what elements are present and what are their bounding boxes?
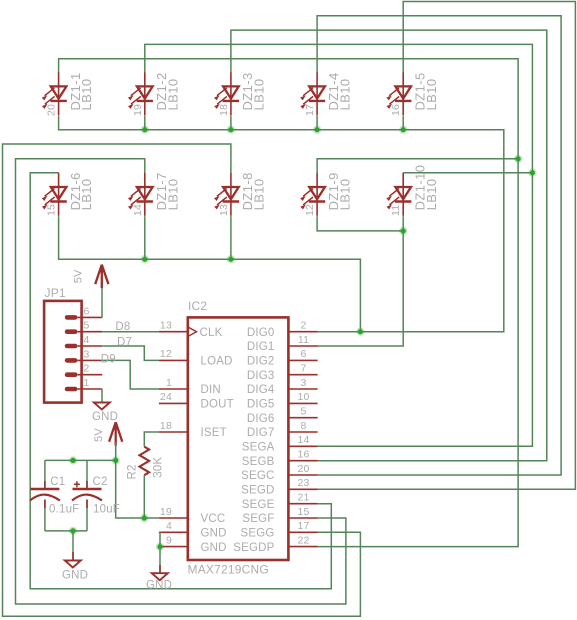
label IC2 (188, 299, 207, 313)
label JP1 pin number 3 (83, 348, 89, 360)
junction row2 bus / DZ1-7 cathode (141, 255, 149, 263)
label IC2 pin name GND (201, 542, 227, 554)
label DZ1-9 name (326, 172, 353, 210)
label DZ1-3 pin number 18 (218, 104, 230, 116)
wire net DIG0 row2 cathode bus (DZ1-6..8) (59, 216, 361, 332)
label DZ1-8 pin number 13 (218, 204, 230, 216)
svg-text:20: 20 (297, 463, 309, 475)
svg-text:GND: GND (201, 528, 227, 540)
label IC2 pin name CLK (200, 327, 223, 339)
LED DZ1-10 (387, 173, 412, 216)
svg-text:VCC: VCC (201, 513, 226, 525)
IC2 right pin 22 (SEGDP) stub (288, 546, 317, 548)
wire C1 top lead (44, 460, 46, 488)
svg-text:DIG0: DIG0 (247, 327, 275, 339)
JP1 pad pin 5 (65, 329, 102, 334)
wire ISET to R2 top (144, 432, 159, 447)
IC2 left pin 1 (DIN) stub (159, 388, 188, 390)
svg-text:LOAD: LOAD (201, 356, 233, 368)
wire DZ1-5 cathode drop (402, 116, 404, 130)
label IC2 pin number 24 (160, 391, 172, 403)
label IC2 pin number 15 (297, 506, 309, 518)
svg-text:5V: 5V (73, 269, 85, 283)
svg-text:5V: 5V (93, 428, 105, 442)
IC2 right pin 2 (DIG0) stub (288, 331, 317, 333)
IC2 clock input symbol (188, 327, 197, 337)
svg-text:C1: C1 (50, 476, 65, 488)
svg-text:3: 3 (300, 377, 306, 389)
LED DZ1-1 (42, 72, 67, 115)
label DZ1-9 pin number 12 (304, 204, 316, 216)
svg-text:SEGB: SEGB (242, 456, 275, 468)
svg-text:SEGD: SEGD (241, 485, 274, 497)
label IC2 pin name VCC (201, 513, 226, 525)
svg-text:4: 4 (83, 334, 89, 346)
svg-text:30K: 30K (153, 457, 165, 478)
label IC2 pin name ISET (201, 427, 227, 439)
wire C1 bottom lead (44, 500, 46, 531)
svg-text:DIN: DIN (201, 384, 221, 396)
label IC2 pin number 6 (300, 348, 306, 360)
svg-text:6: 6 (300, 348, 306, 360)
label IC2 pin name DIG3 (247, 370, 275, 382)
svg-text:SEGF: SEGF (242, 513, 274, 525)
svg-text:LB10: LB10 (424, 178, 439, 210)
IC2 left pin 24 (DOUT) stub (159, 402, 188, 404)
wire DZ1-9 anode branch to SEGDP net (317, 159, 518, 173)
svg-text:SEGDP: SEGDP (233, 542, 274, 554)
svg-text:11: 11 (298, 334, 309, 346)
svg-text:20: 20 (46, 104, 58, 116)
label JP1 pin number 6 (83, 305, 89, 317)
label C2 (93, 476, 108, 488)
label DZ1-10 pin number 11 (390, 205, 402, 216)
junction 5V / VCC / capacitor bus (112, 456, 120, 464)
label IC2 pin number 11 (298, 334, 309, 346)
svg-text:18: 18 (160, 420, 172, 432)
label C1 (50, 476, 65, 488)
label JP1 pin number 2 (83, 363, 89, 375)
label IC2 pin name GND (201, 528, 227, 540)
svg-text:15: 15 (46, 204, 58, 216)
label IC2 pin name DIG5 (247, 399, 275, 411)
svg-text:4: 4 (166, 520, 172, 532)
svg-text:SEGC: SEGC (241, 470, 274, 482)
svg-text:DIG6: DIG6 (247, 413, 275, 425)
wire net DIG1 (DZ1-9 and DZ1-10 cathodes to IC pin 11) (317, 216, 403, 346)
wire DZ1-7 cathode drop (144, 216, 146, 259)
junction row1 bus / DZ1-5 cathode (399, 126, 407, 134)
svg-text:12: 12 (160, 348, 172, 360)
label IC2 pin number 2 (300, 320, 306, 332)
svg-text:SEGE: SEGE (242, 499, 275, 511)
label IC2 pin name DIG0 (247, 327, 275, 339)
IC U IC2 box (188, 317, 289, 560)
label IC2 pin number 19 (160, 506, 172, 518)
wire net SEGC (DZ1-4 anode to IC pin) (317, 16, 561, 475)
power 5V symbol (above JP1) (95, 265, 108, 289)
svg-text:D9: D9 (101, 354, 116, 366)
wire net SEGD (DZ1-5 anode to IC pin) (318, 2, 576, 490)
label IC2 pin number 7 (300, 363, 306, 375)
svg-text:0.1uF: 0.1uF (49, 504, 79, 516)
label JP1 pin number 1 (83, 377, 89, 389)
label JP1 (45, 286, 66, 300)
IC2 right pin 6 (DIG2) stub (288, 359, 317, 361)
svg-text:16: 16 (390, 104, 402, 116)
svg-text:DIG4: DIG4 (247, 384, 275, 396)
IC2 right pin 5 (DIG6) stub (288, 417, 317, 419)
LED DZ1-7 (128, 173, 153, 216)
IC2 left pin 18 (ISET) stub (159, 431, 188, 433)
label 30K (153, 457, 165, 478)
svg-text:6: 6 (83, 305, 89, 317)
label IC2 pin number 9 (166, 534, 172, 546)
junction R2 bottom / VCC wire (140, 514, 148, 522)
svg-text:14: 14 (297, 434, 309, 446)
label DZ1-5 pin number 16 (390, 104, 402, 116)
svg-text:DIG3: DIG3 (247, 370, 275, 382)
label IC2 pin name SEGA (242, 442, 275, 454)
svg-text:LB10: LB10 (252, 178, 267, 210)
LED DZ1-2 (128, 72, 153, 115)
IC2 left pin 12 (LOAD) stub (159, 359, 188, 361)
junction row2 bus drop / DIG0 wire (356, 328, 364, 336)
IC2 right pin 10 (DIG5) stub (288, 402, 317, 404)
svg-text:DIG1: DIG1 (247, 341, 275, 353)
IC2 right pin 7 (DIG3) stub (288, 374, 317, 376)
svg-text:17: 17 (304, 104, 316, 116)
junction capacitor bottom bus / GND (69, 527, 77, 535)
wire net SEGE (DZ1-6 anode wrap-around to IC pin 21) (30, 173, 331, 589)
label DZ1-7 name (154, 172, 180, 210)
wire net D9 (JP1 pin3 to DIN) (102, 360, 159, 389)
svg-text:DOUT: DOUT (201, 399, 234, 411)
LED DZ1-6 (42, 173, 67, 216)
svg-text:ISET: ISET (201, 427, 227, 439)
wire DZ1-3 cathode drop (230, 116, 232, 130)
JP1 pad pin 3 (65, 358, 102, 363)
svg-text:GND: GND (92, 411, 118, 423)
label IC2 pin name SEGDP (233, 542, 274, 554)
wire to GND (below caps) (72, 531, 74, 560)
capacitor C1 (30, 489, 60, 501)
svg-text:19: 19 (160, 506, 172, 518)
label IC2 pin name SEGG (240, 528, 274, 540)
label 0.1uF (49, 504, 79, 516)
wire C2 bottom lead (86, 500, 88, 531)
label IC2 pin name DIG6 (247, 413, 275, 425)
IC2 left pin 19 (VCC) stub (159, 517, 188, 519)
svg-text:17: 17 (297, 520, 309, 532)
svg-text:R2: R2 (127, 464, 139, 479)
label IC2 pin name SEGE (242, 499, 275, 511)
JP1 pad pin 2 (65, 372, 102, 377)
svg-text:LB10: LB10 (79, 79, 94, 111)
LED DZ1-5 (387, 72, 412, 115)
IC2 right pin 11 (DIG1) stub (288, 345, 317, 347)
svg-text:13: 13 (218, 204, 230, 216)
svg-text:15: 15 (297, 506, 309, 518)
IC2 right pin 16 (SEGB) stub (288, 460, 317, 462)
label IC2 pin number 1 (166, 377, 172, 389)
label DZ1-6 pin number 15 (46, 204, 58, 216)
label IC2 pin number 22 (297, 534, 309, 546)
svg-text:DIG2: DIG2 (247, 356, 275, 368)
svg-text:2: 2 (83, 363, 89, 375)
label DZ1-4 pin number 17 (304, 104, 316, 116)
label MAX7219CNG (188, 563, 269, 577)
svg-text:7: 7 (300, 363, 306, 375)
label 10uF (93, 504, 120, 516)
wire R2 bottom to VCC net (143, 475, 145, 518)
svg-text:D8: D8 (115, 321, 130, 333)
ground GND symbol (below JP1) (94, 403, 110, 410)
svg-text:10uF: 10uF (93, 504, 120, 516)
label IC2 pin number 14 (297, 434, 309, 446)
LED DZ1-3 (214, 72, 239, 115)
label D8 (115, 321, 130, 333)
svg-text:14: 14 (132, 204, 144, 216)
svg-text:13: 13 (160, 320, 172, 332)
svg-text:SEGG: SEGG (240, 528, 274, 540)
LED DZ1-9 (300, 173, 325, 216)
junction capacitor bus / GND branch (top) (69, 456, 77, 464)
svg-text:23: 23 (297, 477, 309, 489)
label GND (below JP1) (92, 411, 118, 423)
svg-text:5: 5 (83, 320, 89, 332)
IC2 left pin 13 (CLK) stub (159, 331, 188, 333)
junction row1 bus / DZ1-2 cathode (141, 126, 149, 134)
label D9 (101, 354, 116, 366)
wire net SEGB (DZ1-3 anode to IC pin) (231, 30, 547, 461)
LED DZ1-8 (214, 173, 239, 216)
label DZ1-1 pin number 20 (46, 104, 58, 116)
label IC2 pin number 8 (300, 420, 306, 432)
IC2 right pin 23 (SEGD) stub (288, 488, 317, 490)
resistor R2 zigzag (140, 447, 150, 476)
label IC2 pin name SEGC (241, 470, 274, 482)
label DZ1-1 name (68, 72, 94, 110)
svg-text:LB10: LB10 (338, 178, 353, 210)
junction row1 bus / DZ1-3 cathode (227, 126, 235, 134)
label IC2 pin number 20 (297, 463, 309, 475)
capacitor C2 (polarized) (72, 481, 102, 500)
label GND (below IC2) (146, 580, 172, 592)
svg-text:1: 1 (166, 377, 172, 389)
svg-text:10: 10 (297, 391, 309, 403)
svg-text:DIG7: DIG7 (247, 427, 275, 439)
label DZ1-4 name (326, 72, 353, 110)
JP1 pad pin 1 (65, 387, 102, 392)
label DZ1-2 name (154, 72, 180, 110)
wire net D8 (JP1 pin5 to CLK) (102, 331, 159, 333)
junction DZ1-10 cathode / DIG1 net (399, 227, 407, 235)
svg-text:11: 11 (390, 205, 402, 216)
label IC2 pin name DOUT (201, 399, 234, 411)
label DZ1-8 name (240, 172, 266, 210)
label IC2 pin name LOAD (201, 356, 233, 368)
label IC2 pin number 5 (300, 406, 306, 418)
svg-text:22: 22 (297, 534, 309, 546)
svg-text:19: 19 (132, 104, 144, 116)
label IC2 pin name DIG1 (247, 341, 275, 353)
svg-text:LB10: LB10 (165, 79, 180, 111)
junction DZ1-9 anode / SEGDP net (514, 155, 522, 163)
label IC2 pin number 12 (160, 348, 172, 360)
wire DZ1-4 cathode drop (316, 116, 318, 130)
label DZ1-2 pin number 19 (132, 104, 144, 116)
IC2 left pin 4 (GND) stub (159, 531, 188, 533)
svg-text:21: 21 (297, 492, 309, 504)
label IC2 pin name DIG4 (247, 384, 275, 396)
wire net D7 (JP1 pin4 to LOAD) (102, 346, 159, 360)
svg-text:LB10: LB10 (165, 178, 180, 210)
ground GND symbol (below IC2) (152, 573, 168, 580)
wire JP1 pin6 to 5V (101, 285, 103, 317)
IC2 right pin 8 (DIG7) stub (288, 431, 317, 433)
svg-text:JP1: JP1 (45, 286, 66, 300)
svg-text:16: 16 (297, 449, 309, 461)
wire net SEGG (DZ1-8 anode wrap-around to IC pin 17) (3, 144, 361, 616)
label JP1 pin number 4 (83, 334, 89, 346)
label IC2 pin number 3 (300, 377, 306, 389)
svg-text:18: 18 (218, 104, 230, 116)
label D7 (117, 337, 132, 349)
junction row2 bus / DZ1-8 cathode (227, 255, 235, 263)
svg-text:3: 3 (83, 348, 89, 360)
svg-text:LB10: LB10 (338, 79, 353, 111)
label JP1 pin number 5 (83, 320, 89, 332)
wire JP1 pin1 to GND (101, 389, 103, 402)
IC2 left pin 9 (GND) stub (159, 546, 188, 548)
connector JP1 box (44, 301, 82, 403)
wire DZ1-2 cathode drop (144, 116, 146, 130)
wire DZ1-8 cathode drop (230, 216, 232, 259)
junction IC2 GND pins / ground wire (156, 543, 164, 551)
JP1 pad pin 4 (65, 344, 102, 349)
label GND (below caps) (62, 570, 88, 582)
IC2 right pin 15 (SEGF) stub (288, 517, 317, 519)
wire DZ1-10 anode branch to SEGA net (403, 172, 532, 174)
label IC2 pin number 10 (297, 391, 309, 403)
label IC2 pin name SEGB (242, 456, 275, 468)
wire VCC net (caps bus to pin 19) (45, 460, 159, 518)
svg-text:8: 8 (300, 420, 306, 432)
svg-text:LB10: LB10 (424, 79, 439, 111)
IC2 right pin 3 (DIG4) stub (288, 388, 317, 390)
svg-text:GND: GND (201, 542, 227, 554)
ground GND symbol (below caps) (65, 561, 81, 568)
JP1 pad pin 6 (65, 315, 102, 320)
svg-text:12: 12 (304, 204, 316, 216)
label IC2 pin number 18 (160, 420, 172, 432)
label DZ1-5 name (412, 72, 438, 110)
label IC2 pin name DIG7 (247, 427, 275, 439)
LED DZ1-4 (300, 72, 325, 115)
label IC2 pin number 13 (160, 320, 172, 332)
wire 5V to VCC junction (115, 443, 117, 461)
wire net SEGA (DZ1-2 anode to IC pin) (145, 44, 533, 446)
label 5V (above JP1) (73, 269, 85, 283)
svg-text:DIG5: DIG5 (247, 399, 275, 411)
label IC2 pin number 17 (297, 520, 309, 532)
label 5V (at VCC) (93, 428, 105, 442)
svg-text:CLK: CLK (200, 327, 223, 339)
label IC2 pin number 16 (297, 449, 309, 461)
label DZ1-7 pin number 14 (132, 204, 144, 216)
IC2 right pin 17 (SEGG) stub (288, 531, 317, 533)
IC2 right pin 14 (SEGA) stub (288, 445, 317, 447)
svg-text:D7: D7 (117, 337, 132, 349)
wire net DIG0 row1 cathode bus (59, 116, 504, 332)
label DZ1-6 name (68, 172, 94, 210)
svg-text:5: 5 (300, 406, 306, 418)
svg-text:24: 24 (160, 391, 172, 403)
wire IC2 GND pins to ground (159, 532, 160, 573)
svg-text:LB10: LB10 (252, 79, 267, 111)
label R2 (127, 464, 139, 479)
label DZ1-3 name (240, 72, 266, 110)
label IC2 pin number 21 (297, 492, 309, 504)
svg-text:GND: GND (146, 580, 172, 592)
label IC2 pin name DIG2 (247, 356, 275, 368)
label IC2 pin name DIN (201, 384, 221, 396)
wire capacitor bottom bus (45, 530, 87, 532)
svg-text:MAX7219CNG: MAX7219CNG (188, 563, 269, 577)
svg-text:9: 9 (166, 534, 172, 546)
IC2 right pin 21 (SEGE) stub (288, 503, 317, 505)
junction row1 bus / DZ1-4 cathode (313, 126, 321, 134)
svg-text:SEGA: SEGA (242, 442, 275, 454)
svg-text:GND: GND (62, 570, 88, 582)
label IC2 pin name SEGF (242, 513, 274, 525)
label IC2 pin number 4 (166, 520, 172, 532)
IC2 right pin 20 (SEGC) stub (288, 474, 317, 476)
svg-text:1: 1 (83, 377, 89, 389)
label DZ1-10 name (412, 165, 438, 211)
wire net SEGDP (DZ1-1 anode to IC pin) (59, 59, 518, 547)
svg-text:2: 2 (300, 320, 306, 332)
label IC2 pin number 23 (297, 477, 309, 489)
junction DZ1-10 anode / SEGA net (528, 169, 536, 177)
svg-text:C2: C2 (93, 476, 108, 488)
wire C2 top lead (86, 460, 88, 488)
label IC2 pin name SEGD (241, 485, 274, 497)
svg-text:LB10: LB10 (79, 178, 94, 210)
power 5V symbol (at R2/VCC) (109, 422, 122, 446)
svg-text:IC2: IC2 (188, 299, 207, 313)
wire net SEGF (DZ1-7 anode wrap-around to IC pin 15) (16, 159, 346, 604)
